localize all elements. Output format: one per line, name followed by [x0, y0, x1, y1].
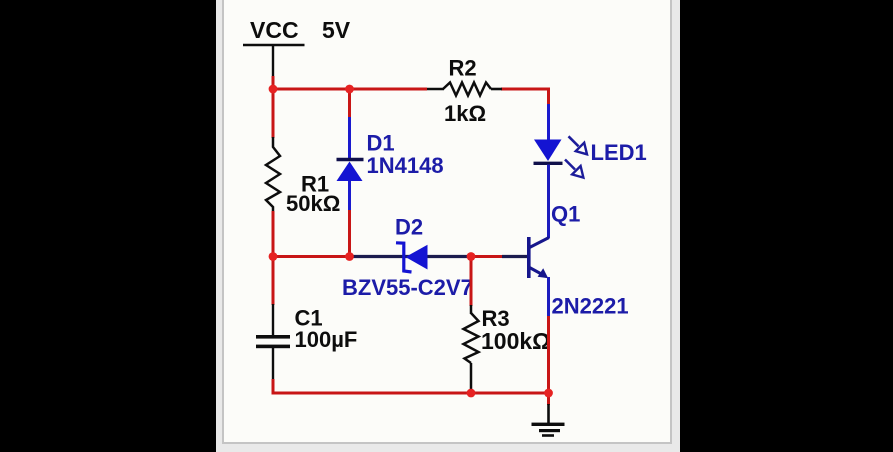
svg-text:50kΩ: 50kΩ — [286, 191, 340, 216]
svg-text:5V: 5V — [322, 17, 351, 43]
wire emitter to bottom rail — [547, 316, 550, 394]
wire ground stub — [547, 393, 550, 405]
wire R1 to middle rail — [272, 211, 275, 258]
svg-text:Q1: Q1 — [551, 202, 580, 227]
ground — [532, 423, 565, 437]
transistor Q1 — [527, 210, 549, 317]
svg-text:D2: D2 — [395, 215, 423, 240]
node junction middle R3 — [467, 252, 476, 261]
diode D1 — [337, 117, 364, 211]
svg-text:100kΩ: 100kΩ — [481, 328, 551, 354]
wire left column upper (to R1) — [272, 89, 275, 138]
svg-text:R2: R2 — [449, 56, 477, 81]
resistor R2 — [427, 83, 502, 96]
svg-text:VCC: VCC — [250, 17, 299, 43]
wire middle rail right segment to base — [467, 255, 503, 258]
node junction middle-left — [269, 252, 278, 261]
wire middle rail left segment — [272, 255, 354, 258]
node junction middle D1 — [345, 252, 354, 261]
capacitor C1 — [256, 304, 290, 380]
diode D2 (zener) — [352, 243, 467, 272]
node junction bottom emitter — [544, 389, 553, 398]
wire bottom rail — [272, 392, 551, 395]
wire D1 column upper — [348, 89, 351, 118]
node junction top D1 — [345, 85, 354, 94]
VCC power symbol — [243, 45, 305, 77]
wire capacitor to bottom rail — [272, 379, 275, 395]
resistor R1 — [266, 137, 280, 211]
wire right column top (R2 to LED) — [547, 88, 550, 106]
resistor R3 — [464, 305, 479, 393]
node junction bottom R3 — [467, 389, 476, 398]
wire left column to capacitor — [272, 255, 275, 305]
svg-text:1N4148: 1N4148 — [367, 153, 444, 178]
wire top rail right segment — [501, 88, 550, 91]
wire R3 column upper — [470, 257, 473, 307]
wire VCC stub to top rail — [272, 76, 275, 90]
wire D1 to middle rail — [348, 210, 351, 258]
svg-text:1kΩ: 1kΩ — [444, 101, 486, 126]
wire top rail left segment — [272, 88, 428, 91]
node junction top-left — [269, 85, 278, 94]
svg-text:D1: D1 — [367, 131, 395, 156]
svg-text:LED1: LED1 — [591, 140, 647, 165]
svg-text:BZV55-C2V7: BZV55-C2V7 — [342, 275, 473, 300]
svg-text:2N2221: 2N2221 — [552, 294, 629, 319]
wire base lead — [502, 255, 528, 258]
LED LED1 — [534, 104, 588, 212]
svg-text:100µF: 100µF — [295, 327, 358, 352]
